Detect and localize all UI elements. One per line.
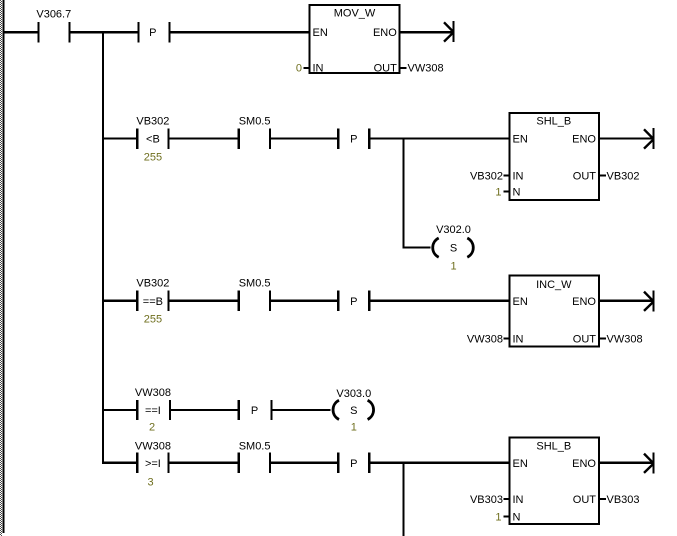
svg-text:ENO: ENO — [572, 296, 596, 308]
svg-text:ENO: ENO — [572, 458, 596, 470]
svg-text:1: 1 — [450, 260, 456, 272]
svg-text:P: P — [350, 458, 357, 470]
svg-text:P: P — [149, 27, 156, 39]
wire rung4 rail to compare contact — [104, 409, 136, 411]
compare contact VW308 >=I 3 — [135, 441, 171, 489]
svg-text:OUT: OUT — [573, 334, 597, 346]
pin tick OUT SHL_B rung5 — [600, 498, 606, 500]
wire rung5 rail to compare contact — [104, 462, 136, 464]
svg-text:VW308: VW308 — [135, 441, 171, 453]
svg-text:VW308: VW308 — [135, 387, 171, 399]
contact P rung3 — [337, 291, 370, 311]
contact SM0.5 rung3 — [238, 278, 272, 311]
svg-text:<B: <B — [146, 134, 160, 146]
wire rung4 P to coil — [273, 409, 331, 411]
svg-text:V302.0: V302.0 — [436, 224, 471, 236]
svg-text:VB302: VB302 — [136, 115, 169, 127]
box MOV_W — [310, 5, 400, 75]
contact P rung1 — [137, 22, 170, 42]
pin tick IN MOV_W — [304, 67, 310, 69]
svg-text:S: S — [350, 405, 357, 417]
svg-text:OUT: OUT — [374, 63, 398, 75]
wire rung5 to SM0.5 — [170, 462, 238, 464]
wire rung4 to P contact — [171, 409, 238, 411]
svg-text:ENO: ENO — [373, 27, 397, 39]
svg-text:N: N — [513, 187, 521, 199]
wire rung1 contact to P contact — [71, 31, 138, 33]
contact P rung4 — [238, 400, 273, 420]
svg-text:==I: ==I — [145, 405, 161, 417]
svg-text:INC_W: INC_W — [536, 279, 572, 291]
compare contact VB302 &lt;B 255 — [136, 115, 170, 163]
wire rung1 P contact to MOV_W EN — [171, 31, 310, 33]
svg-text:P: P — [350, 134, 357, 146]
contact P rung5 — [337, 453, 370, 473]
svg-text:OUT: OUT — [573, 494, 597, 506]
wire branch down from rung5 — [402, 462, 404, 536]
svg-text:P: P — [350, 296, 357, 308]
svg-text:EN: EN — [513, 296, 528, 308]
arrow rung5 output — [644, 453, 655, 474]
box SHL_B rung5 — [510, 438, 600, 524]
contact SM0.5 rung2 — [238, 115, 272, 148]
svg-text:IN: IN — [513, 171, 524, 183]
wire rung3 to P contact — [271, 300, 337, 302]
pin tick OUT INC_W — [600, 338, 606, 340]
svg-text:1: 1 — [351, 421, 357, 433]
svg-text:0: 0 — [296, 63, 302, 75]
svg-text:SHL_B: SHL_B — [536, 441, 571, 453]
box INC_W — [510, 276, 600, 347]
svg-text:ENO: ENO — [572, 134, 596, 146]
pin tick N SHL_B rung5 — [504, 516, 510, 518]
wire rung2 ENO output — [600, 137, 653, 139]
coil V302.0 set — [433, 224, 474, 272]
svg-text:VB303: VB303 — [607, 494, 640, 506]
svg-text:OUT: OUT — [573, 171, 597, 183]
svg-text:MOV_W: MOV_W — [334, 7, 376, 19]
svg-text:1: 1 — [495, 187, 501, 199]
pin tick IN INC_W — [504, 338, 510, 340]
wire rung5 to P contact — [271, 462, 337, 464]
svg-text:SM0.5: SM0.5 — [239, 115, 271, 127]
compare contact VW308 ==I 2 — [135, 387, 171, 434]
svg-text:1: 1 — [495, 512, 501, 524]
pin tick N SHL_B rung2 — [504, 191, 510, 193]
compare contact VB302 ==B 255 — [136, 278, 170, 326]
wire rung3 rail to compare contact — [104, 300, 136, 302]
contact V306.7 — [36, 9, 71, 43]
svg-text:V306.7: V306.7 — [36, 9, 71, 21]
svg-text:VW308: VW308 — [408, 63, 444, 75]
wire rung2 P to SHL_B EN — [370, 137, 509, 139]
wire rung2 rail to compare contact — [104, 137, 136, 139]
svg-text:SHL_B: SHL_B — [536, 116, 571, 128]
branch power rail — [102, 31, 104, 464]
svg-text:IN: IN — [513, 494, 524, 506]
svg-text:VB302: VB302 — [607, 171, 640, 183]
contact P rung2 — [337, 128, 370, 148]
svg-text:SM0.5: SM0.5 — [239, 441, 271, 453]
box SHL_B rung2 — [510, 113, 600, 200]
svg-text:VW308: VW308 — [467, 334, 503, 346]
svg-text:VW308: VW308 — [607, 334, 643, 346]
wire rung1 rail to contact V306.7 — [5, 31, 38, 33]
svg-text:SM0.5: SM0.5 — [239, 278, 271, 290]
svg-text:3: 3 — [147, 477, 153, 489]
svg-text:2: 2 — [149, 421, 155, 433]
svg-text:V303.0: V303.0 — [336, 388, 371, 400]
svg-text:S: S — [450, 243, 457, 255]
pin tick OUT SHL_B rung2 — [600, 175, 606, 177]
svg-text:255: 255 — [144, 151, 162, 163]
wire rung1 ENO output — [401, 31, 453, 33]
svg-text:IN: IN — [513, 334, 524, 346]
svg-text:255: 255 — [144, 314, 162, 326]
svg-text:IN: IN — [313, 63, 324, 75]
wire rung5 ENO output — [600, 462, 653, 464]
wire rung3 ENO output — [600, 300, 653, 302]
arrow rung2 output — [644, 128, 655, 149]
pin tick OUT MOV_W — [401, 67, 407, 69]
svg-text:EN: EN — [313, 27, 328, 39]
svg-text:EN: EN — [513, 458, 528, 470]
wire branch to coil V302.0 — [402, 246, 430, 248]
arrow rung1 output — [444, 21, 455, 42]
svg-text:N: N — [513, 512, 521, 524]
wire rung2 to P contact — [271, 137, 337, 139]
svg-text:==B: ==B — [143, 296, 163, 308]
svg-text:>=I: >=I — [145, 458, 161, 470]
svg-text:EN: EN — [513, 134, 528, 146]
left power rail — [3, 0, 5, 533]
wire rung2 to SM0.5 — [170, 137, 238, 139]
pin tick IN SHL_B rung5 — [504, 498, 510, 500]
svg-text:P: P — [251, 405, 258, 417]
wire rung3 P to INC_W EN — [370, 300, 509, 302]
wire rung5 P to SHL_B EN — [370, 462, 509, 464]
pin tick IN SHL_B rung2 — [504, 175, 510, 177]
svg-text:VB302: VB302 — [470, 171, 503, 183]
page margin dither strip — [0, 0, 2, 536]
coil V303.0 set — [333, 388, 374, 434]
svg-text:VB302: VB302 — [136, 278, 169, 290]
wire branch down from rung2 — [402, 137, 404, 247]
wire rung3 to SM0.5 — [170, 300, 238, 302]
svg-text:VB303: VB303 — [470, 494, 503, 506]
contact SM0.5 rung5 — [238, 441, 272, 473]
arrow rung3 output — [644, 291, 655, 312]
